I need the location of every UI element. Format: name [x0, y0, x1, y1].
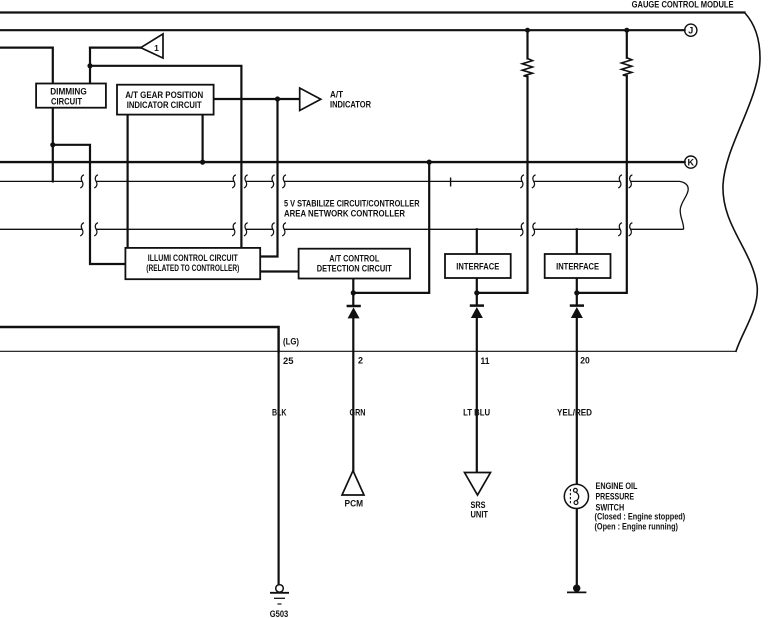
svg-text:CIRCUIT: CIRCUIT [51, 96, 82, 106]
resistor R2 [622, 58, 632, 76]
ground: body ground at oil pressure switch [567, 585, 586, 593]
svg-text:GRN: GRN [350, 407, 366, 418]
svg-text:INDICATOR CIRCUIT: INDICATOR CIRCUIT [127, 100, 202, 110]
svg-text:A/T CONTROL: A/T CONTROL [329, 253, 379, 263]
A/T gear position indicator circuit box [117, 85, 214, 115]
wire: bus2 to interface 2 [576, 229, 578, 254]
wire: resistor R1 lower leg down and over to interface 1 node [477, 77, 528, 293]
diode D3 [570, 306, 584, 318]
gauge control module top edge [0, 11, 745, 13]
svg-text:(Closed : Engine stopped): (Closed : Engine stopped) [595, 512, 686, 522]
svg-text:DIMMING: DIMMING [50, 87, 87, 97]
svg-text:A/T: A/T [330, 90, 343, 100]
svg-text:(RELATED TO CONTROLLER): (RELATED TO CONTROLLER) [146, 263, 239, 273]
svg-text:INTERFACE: INTERFACE [556, 261, 599, 271]
connector arrow: SRS unit [465, 473, 491, 521]
wire: diode D1 to PCM [352, 318, 354, 471]
svg-text:UNIT: UNIT [471, 509, 489, 520]
wire: diode D2 to SRS unit [476, 317, 478, 473]
wire: A/T control detection bottom lead to diode [352, 279, 354, 306]
svg-text:DETECTION CIRCUIT: DETECTION CIRCUIT [317, 263, 392, 273]
A/T control detection circuit box [299, 249, 410, 279]
wire: K rail down to A/T control detection right-angle [353, 162, 429, 293]
wire: A/T gear box right lead to K rail [202, 115, 204, 163]
svg-text:PRESSURE: PRESSURE [596, 491, 635, 502]
svg-text:2: 2 [358, 356, 363, 366]
connector node K [685, 156, 697, 168]
wire: triangle 1 to dimming circuit node [90, 46, 141, 48]
node: junction dots [50, 28, 629, 296]
wire: A/T gear box output to A/T indicator [214, 98, 300, 100]
wire: dimming circuit bottom lead [52, 108, 54, 145]
wire: interface 1 bottom lead [476, 278, 478, 305]
resistor R1 [522, 59, 532, 77]
svg-text:1: 1 [154, 43, 159, 53]
wire: resistor R1 leg from J rail [526, 30, 528, 58]
connector node J [685, 24, 697, 36]
op-amp style arrow: A/T indicator [300, 88, 372, 111]
svg-text:11: 11 [481, 356, 490, 366]
triangle ref 1 [141, 34, 163, 58]
wire: oil pressure switch to body ground [576, 509, 578, 586]
diode D2 [470, 306, 484, 318]
wire: resistor R2 lower leg down and over to interface 2 node [577, 76, 627, 293]
interface box 2 [545, 254, 611, 278]
svg-text:(LG): (LG) [283, 336, 299, 346]
gauge control module bottom edge (connector line) [0, 350, 736, 352]
switch S1: engine oil pressure switch [564, 484, 588, 508]
interface box 1 [445, 254, 511, 278]
svg-text:ENGINE OIL: ENGINE OIL [596, 480, 638, 491]
wire: interface 2 bottom lead [576, 278, 578, 305]
wire: J rail [0, 29, 685, 31]
wire: illumi box to A/T control detection box [260, 270, 298, 272]
wire: BLK wire pin 25 to G503 [278, 351, 280, 584]
wire: diode D3 to oil pressure switch [576, 317, 578, 484]
svg-text:INTERFACE: INTERFACE [456, 261, 499, 271]
svg-text:J: J [688, 26, 693, 36]
svg-text:INDICATOR: INDICATOR [330, 100, 371, 110]
wire: node at x90 to illumi feed vertical x241 [90, 66, 241, 248]
svg-text:25: 25 [283, 356, 294, 366]
wire: A/T gear box left lead to illumi box top [126, 115, 128, 248]
svg-text:LT BLU: LT BLU [463, 407, 490, 418]
diode D1 [347, 306, 361, 318]
label: engine oil pressure switch [595, 480, 686, 532]
wire: CAN bus line 1 [0, 175, 680, 188]
ground G503 [270, 585, 289, 618]
svg-text:BLK: BLK [272, 407, 287, 418]
connector arrow: PCM [342, 471, 364, 510]
wire: dimming lead down to CAN bus 1 [52, 145, 54, 182]
gauge control module right boundary (torn S-curve) [723, 13, 760, 352]
wire: branch from A/T indicator line down to illumi box right side [260, 99, 277, 257]
svg-text:A/T GEAR POSITION: A/T GEAR POSITION [125, 90, 203, 100]
svg-text:20: 20 [580, 355, 590, 365]
svg-text:G503: G503 [270, 609, 289, 618]
illumi control circuit box [125, 248, 260, 279]
wire: branch from dimming lead to illumi control left feed [53, 145, 126, 264]
svg-text:AREA NETWORK CONTROLLER: AREA NETWORK CONTROLLER [284, 209, 405, 220]
label: 5V stabilize circuit text [284, 198, 420, 219]
svg-text:PCM: PCM [345, 498, 364, 509]
wire: left feed to dimming circuit [0, 48, 53, 84]
svg-text:K: K [688, 157, 695, 167]
wire: thick LG wire to pin 25 [0, 327, 279, 351]
wire: CAN bus line 2 [0, 223, 684, 236]
wire: bus2 to interface 1 [476, 229, 478, 254]
wire: K rail [0, 161, 685, 163]
svg-text:(Open : Engine running): (Open : Engine running) [595, 521, 679, 531]
wire: bus continuation torn mark [680, 181, 689, 229]
svg-text:YEL/RED: YEL/RED [557, 407, 592, 418]
dimming circuit box [36, 84, 106, 108]
svg-text:ILLUMI CONTROL CIRCUIT: ILLUMI CONTROL CIRCUIT [148, 253, 238, 263]
wire: resistor R2 leg from J rail [626, 30, 628, 58]
svg-text:GAUGE CONTROL MODULE: GAUGE CONTROL MODULE [632, 0, 734, 9]
wire: vertical at x90 into dimming circuit [89, 48, 91, 84]
